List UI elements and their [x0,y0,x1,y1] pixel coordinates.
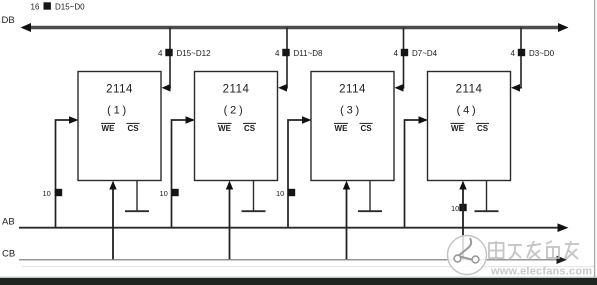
svg-text:D15~D12: D15~D12 [177,49,212,58]
wire WE from CB to chip 3 [343,181,350,260]
svg-text:(4): (4) [457,104,479,116]
ground chip 1 CS [125,181,149,212]
svg-text:10: 10 [276,189,284,198]
label 16根 D15~D0 [31,2,86,11]
svg-text:CB: CB [2,249,15,260]
svg-text:D11~D8: D11~D8 [294,49,324,58]
svg-text:D3~D0: D3~D0 [529,49,555,58]
svg-text:WE: WE [335,124,349,133]
wire address elbow AB to chip 3 [288,116,312,227]
svg-text:D7~D4: D7~D4 [412,49,438,58]
svg-text:10: 10 [160,189,168,198]
svg-text:AB: AB [2,217,15,228]
svg-text:2114: 2114 [456,84,483,96]
label 4根 D7~D4 [394,49,438,58]
ground chip 2 CS [242,181,266,212]
svg-text:D15~D0: D15~D0 [55,3,85,12]
svg-text:4: 4 [394,49,399,58]
svg-text:CS: CS [127,124,139,133]
label 10根 chip 1 [43,189,63,198]
wire data drop D11~D8 to chip 2 [278,28,288,92]
label 4根 D15~D12 [158,49,211,58]
svg-text:DB: DB [2,15,15,26]
wire data drop D7~D4 to chip 3 [395,28,405,92]
label 10根 chip 4 [451,204,467,213]
memory chip U1 2114 (1) [78,72,161,181]
svg-text:4: 4 [511,49,516,58]
svg-text:CS: CS [360,124,372,133]
label 10根 chip 3 [276,189,295,198]
ground chip 4 CS [475,181,499,212]
svg-text:WE: WE [218,124,232,133]
svg-text:4: 4 [275,49,280,58]
wire address elbow AB to chip 1 [56,116,79,227]
svg-text:CS: CS [477,124,489,133]
wire WE from CB to chip 1 [109,181,116,260]
label 4根 D3~D0 [511,49,555,58]
wire address elbow AB to chip 2 [172,116,196,227]
label 4根 D11~D8 [275,49,323,58]
wire data drop D15~D12 to chip 1 [162,28,171,92]
watermark [448,236,593,278]
memory chip U2 2114 (2) [195,72,278,181]
data bus DB [21,23,569,32]
svg-text:2114: 2114 [223,84,250,96]
ground chip 3 CS [358,181,382,212]
memory chip U3 2114 (3) [311,72,394,181]
svg-text:2114: 2114 [106,84,133,96]
svg-text:WE: WE [451,124,465,133]
control bus CB [19,256,567,264]
svg-text:2114: 2114 [339,84,366,96]
wire WE from CB to chip 4 [459,181,466,260]
wire data drop D3~D0 to chip 4 [511,28,522,92]
svg-text:WE: WE [102,124,116,133]
label 10根 chip 2 [160,189,179,198]
memory chip U4 2114 (4) [428,72,511,181]
wire WE from CB to chip 2 [226,181,233,260]
svg-text:(3): (3) [340,104,362,116]
svg-text:10: 10 [43,189,51,198]
svg-text:(2): (2) [224,104,246,116]
svg-text:10: 10 [451,204,459,213]
svg-text:4: 4 [158,49,163,58]
address bus AB [19,223,569,232]
svg-text:16: 16 [31,3,40,12]
svg-text:www.elecfans.com: www.elecfans.com [490,266,592,278]
wire address elbow AB to chip 4 [405,116,429,227]
svg-text:(1): (1) [107,104,129,116]
svg-text:CS: CS [244,124,256,133]
